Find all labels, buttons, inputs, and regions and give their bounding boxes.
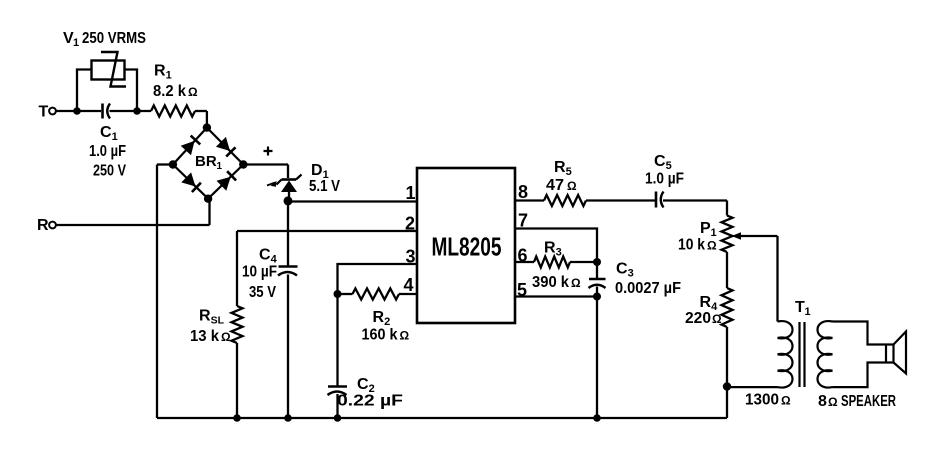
- svg-text:C: C: [616, 261, 628, 278]
- svg-text:2: 2: [405, 214, 415, 234]
- svg-text:Ω: Ω: [567, 179, 577, 193]
- svg-text:1: 1: [405, 183, 415, 203]
- svg-text:R: R: [154, 63, 166, 80]
- svg-text:1300: 1300: [745, 392, 779, 409]
- svg-text:220: 220: [685, 310, 711, 327]
- svg-text:C: C: [100, 124, 112, 141]
- svg-text:BR: BR: [195, 153, 217, 170]
- svg-text:SL: SL: [211, 315, 225, 327]
- svg-text:47: 47: [546, 177, 564, 194]
- svg-text:1: 1: [112, 131, 118, 143]
- svg-text:13 k: 13 k: [190, 328, 219, 345]
- svg-text:390 k: 390 k: [532, 274, 569, 291]
- svg-text:T: T: [39, 104, 49, 121]
- svg-text:Ω: Ω: [712, 312, 722, 326]
- svg-text:R: R: [700, 294, 712, 311]
- svg-text:8: 8: [818, 393, 827, 410]
- svg-text:1.0 µF: 1.0 µF: [645, 171, 684, 188]
- svg-text:35 V: 35 V: [249, 284, 276, 301]
- svg-text:R: R: [554, 159, 566, 176]
- svg-text:5: 5: [566, 166, 572, 178]
- svg-text:Ω: Ω: [188, 85, 198, 99]
- svg-text:D: D: [311, 162, 323, 179]
- svg-text:1: 1: [73, 37, 79, 49]
- svg-text:Ω: Ω: [707, 239, 717, 253]
- svg-text:5: 5: [517, 280, 527, 300]
- svg-text:Ω: Ω: [571, 276, 581, 290]
- svg-text:160 k: 160 k: [362, 327, 398, 344]
- svg-text:0.22 µF: 0.22 µF: [337, 393, 403, 410]
- svg-text:1: 1: [166, 70, 172, 82]
- svg-text:6: 6: [518, 246, 528, 266]
- svg-text:1: 1: [217, 161, 223, 172]
- svg-text:8: 8: [518, 182, 528, 202]
- svg-text:250 V: 250 V: [93, 163, 126, 180]
- svg-text:Ω: Ω: [828, 395, 838, 409]
- svg-text:R: R: [544, 240, 556, 257]
- svg-text:3: 3: [628, 268, 634, 280]
- svg-text:Ω: Ω: [400, 329, 410, 343]
- svg-text:3: 3: [556, 247, 562, 259]
- svg-text:Ω: Ω: [781, 394, 791, 408]
- svg-text:250 VRMS: 250 VRMS: [82, 30, 146, 47]
- svg-text:Ω: Ω: [221, 330, 231, 344]
- svg-text:1: 1: [805, 306, 811, 318]
- svg-text:3: 3: [405, 247, 415, 267]
- svg-text:8.2 k: 8.2 k: [153, 83, 186, 100]
- svg-text:10 k: 10 k: [678, 237, 705, 254]
- svg-text:7: 7: [518, 211, 528, 231]
- svg-text:1.0 µF: 1.0 µF: [89, 143, 126, 160]
- svg-text:R: R: [373, 309, 385, 326]
- svg-text:10 µF: 10 µF: [242, 264, 277, 281]
- svg-text:C: C: [357, 376, 369, 393]
- svg-text:0.0027 µF: 0.0027 µF: [615, 280, 681, 297]
- svg-text:P: P: [700, 220, 711, 237]
- svg-text:ML8205: ML8205: [432, 232, 502, 262]
- svg-text:C: C: [259, 247, 271, 264]
- svg-text:5.1 V: 5.1 V: [309, 178, 340, 195]
- svg-text:R: R: [37, 217, 49, 234]
- svg-text:4: 4: [403, 275, 413, 295]
- svg-text:SPEAKER: SPEAKER: [841, 393, 896, 410]
- svg-text:T: T: [795, 299, 805, 316]
- svg-text:C: C: [654, 153, 666, 170]
- svg-text:1: 1: [711, 227, 717, 239]
- svg-text:R: R: [199, 308, 211, 325]
